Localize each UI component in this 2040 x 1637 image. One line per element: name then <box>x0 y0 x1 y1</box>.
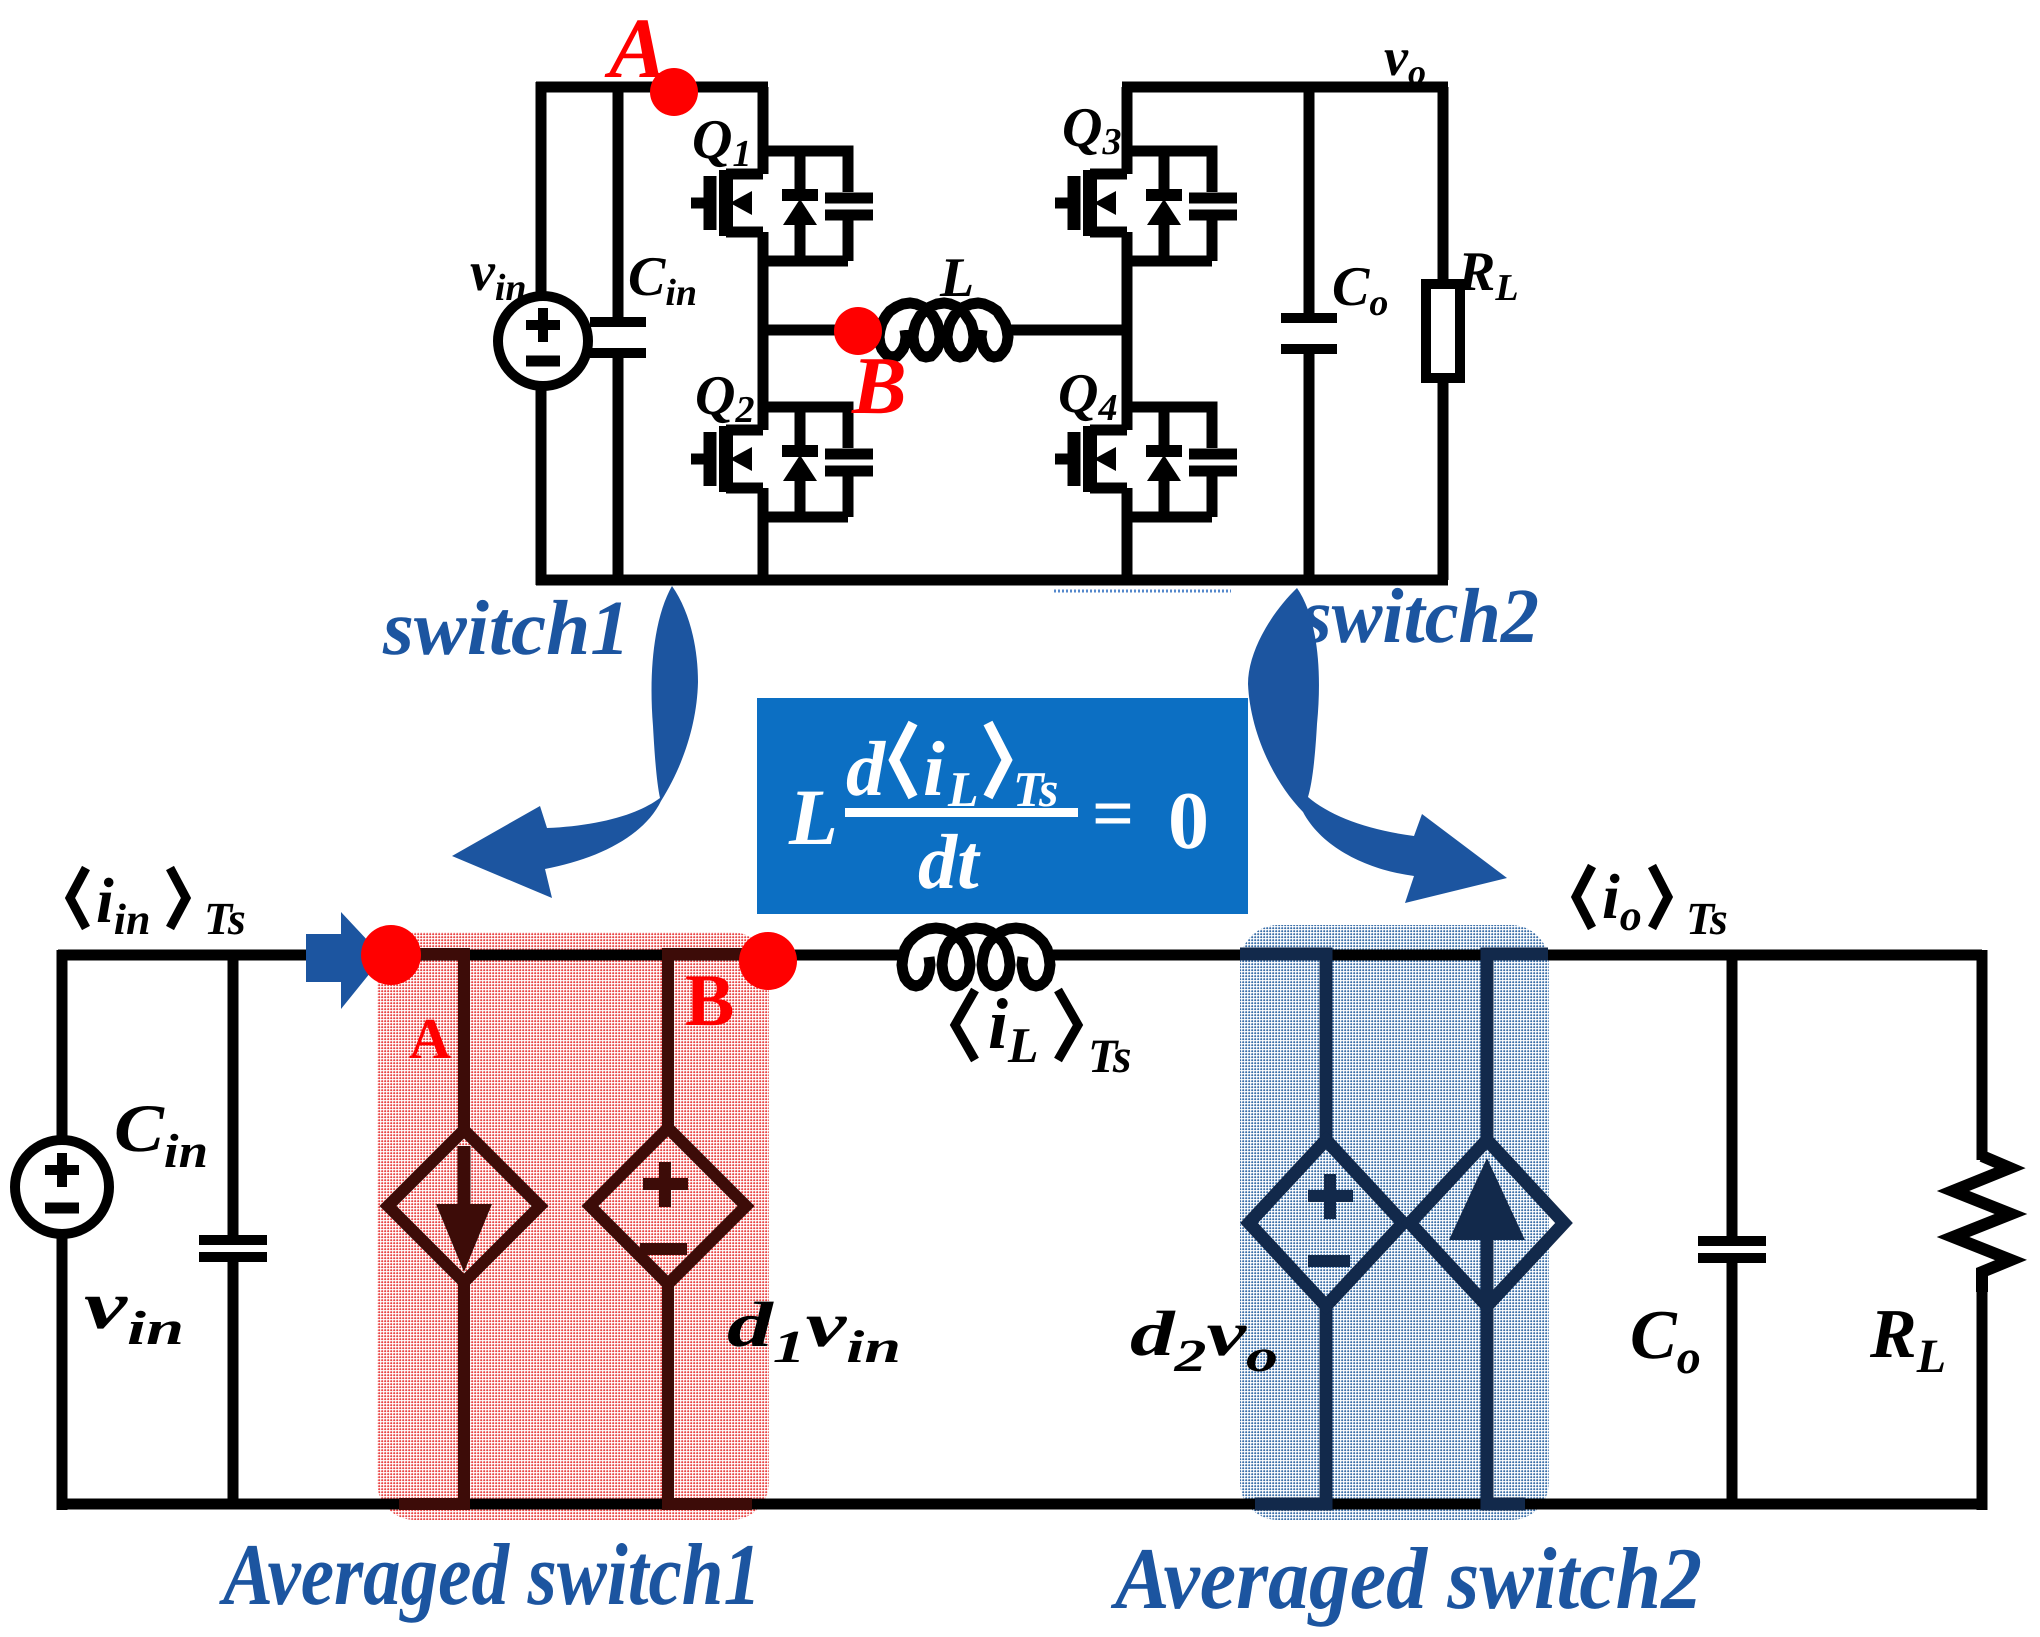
wire voltage source to bottom rail <box>668 1284 752 1504</box>
svg-text:vin: vin <box>470 241 527 309</box>
wire current source io to top rail <box>1487 954 1548 1140</box>
wire Q3 leg <box>1122 87 1133 330</box>
voltage source vin (bottom) <box>15 1140 109 1234</box>
resistor RL (top) <box>1426 87 1460 580</box>
node B (bottom) <box>739 932 797 990</box>
node A (top) <box>650 68 698 116</box>
capacitor Cin (top) <box>590 87 646 580</box>
svg-text:dt: dt <box>918 818 981 905</box>
dependent voltage source d2vo diamond <box>1249 1140 1403 1306</box>
svg-text:Ts: Ts <box>1088 1030 1132 1083</box>
svg-text:RL: RL <box>1457 241 1519 309</box>
wire node A to current source <box>395 954 464 1130</box>
capacitor Co (bottom) <box>1698 955 1766 1504</box>
wire Q1 leg <box>758 87 769 330</box>
voltage source vin (top) <box>498 296 588 386</box>
svg-text:vo: vo <box>1384 27 1426 92</box>
svg-text:d: d <box>846 725 886 812</box>
label iL Ts (bottom inductor) <box>955 984 1132 1083</box>
dependent voltage source d1vin diamond <box>590 1128 746 1284</box>
equation box <box>757 698 1248 914</box>
label io Ts <box>1576 861 1728 944</box>
capacitor Co (top) <box>1281 87 1337 580</box>
svg-text:B: B <box>685 960 734 1042</box>
curved arrow left <box>452 586 698 898</box>
svg-text:switch2: switch2 <box>1301 572 1539 659</box>
svg-text:Ts: Ts <box>1686 893 1728 944</box>
wire voltage source d2vo to top rail <box>1240 954 1326 1140</box>
svg-text:L: L <box>939 247 974 309</box>
svg-text:Averaged switch2: Averaged switch2 <box>1110 1531 1702 1628</box>
svg-text:Q3: Q3 <box>1062 97 1121 163</box>
transistor Q3 <box>1055 151 1237 261</box>
node B (top) <box>834 307 882 355</box>
dotted underline artifact <box>1054 590 1231 593</box>
transistor Q2 <box>691 407 873 517</box>
svg-text:Q1: Q1 <box>692 109 751 175</box>
svg-text:A: A <box>604 0 666 96</box>
averaged switch2 wires (dark navy) <box>1240 954 1564 1504</box>
inductor L (top) <box>879 303 1008 357</box>
transistor Q4 <box>1055 407 1237 517</box>
wire mid line node B to inductor <box>763 325 1127 336</box>
wire current source to bottom rail <box>399 1282 464 1504</box>
dependent current source diamond <box>1410 1140 1564 1306</box>
svg-text:i: i <box>923 725 945 812</box>
svg-text:Co: Co <box>1630 1297 1701 1384</box>
svg-text:switch1: switch1 <box>382 584 630 671</box>
svg-text:iin: iin <box>96 865 150 944</box>
wire top rail (bottom circuit) <box>58 950 906 961</box>
shading averaged switch2 <box>1240 925 1549 1520</box>
arrow inside current source (up) <box>1481 1240 1494 1303</box>
svg-text:io: io <box>1602 861 1642 940</box>
svg-text:Q4: Q4 <box>1058 363 1117 429</box>
label iin Ts <box>70 865 246 944</box>
wire top rail left bridge <box>536 82 768 93</box>
shading averaged switch1 <box>377 932 769 1520</box>
svg-text:d1vin: d1vin <box>727 1289 901 1372</box>
svg-text:Averaged switch1: Averaged switch1 <box>219 1527 761 1624</box>
wire top rail right bridge <box>1122 82 1448 93</box>
svg-text:A: A <box>409 1006 451 1071</box>
blue block arrow iin <box>306 912 383 1009</box>
wire voltage source d2vo to bottom rail <box>1255 1306 1326 1504</box>
svg-text:RL: RL <box>1869 1296 1946 1383</box>
svg-text:Cin: Cin <box>628 246 697 314</box>
svg-text:L: L <box>788 774 838 862</box>
svg-text:iL: iL <box>988 984 1039 1073</box>
svg-text:Ts: Ts <box>204 893 246 944</box>
svg-text:Cin: Cin <box>114 1090 208 1178</box>
wire current source io to bottom rail <box>1487 1306 1525 1504</box>
wire Q4 leg <box>1122 330 1133 580</box>
wire Q2 leg <box>758 330 769 580</box>
wire voltage source to node B <box>668 954 745 1128</box>
svg-text:Q2: Q2 <box>695 365 754 431</box>
wire bottom rail <box>536 575 1448 586</box>
wire left vertical <box>57 950 68 1510</box>
svg-text:0: 0 <box>1168 775 1209 866</box>
node A (bottom) <box>361 925 421 985</box>
plus/minus inside voltage source d2vo <box>1308 1174 1353 1261</box>
wire bottom rail (bottom circuit) <box>58 1499 1982 1510</box>
dependent current source d1iL diamond <box>388 1130 540 1282</box>
arrow inside current source (down) <box>458 1146 471 1205</box>
svg-text:vin: vin <box>84 1267 184 1355</box>
resistor RL (bottom, zigzag) <box>1953 1156 2011 1292</box>
svg-text:=: = <box>1092 773 1134 855</box>
svg-text:Co: Co <box>1332 256 1388 324</box>
inductor iL (bottom) <box>902 928 1050 986</box>
svg-text:B: B <box>851 340 907 431</box>
wire left vertical <box>536 82 547 585</box>
averaged switch1 wires (dark maroon) <box>388 954 752 1504</box>
transistor Q1 <box>691 151 873 261</box>
plus/minus inside voltage source d1vin <box>640 1162 688 1249</box>
curved arrow right <box>1248 588 1507 903</box>
wire right vertical <box>1977 950 1988 1510</box>
capacitor Cin (bottom) <box>199 955 267 1504</box>
